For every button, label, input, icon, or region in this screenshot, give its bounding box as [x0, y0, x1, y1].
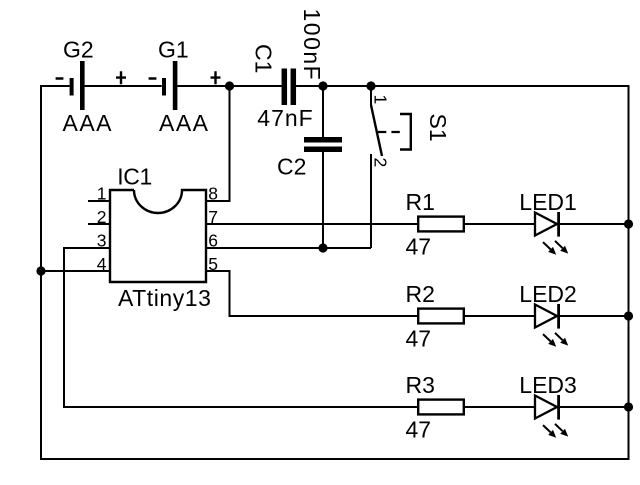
svg-text:AAA: AAA: [159, 110, 210, 136]
svg-text:R1: R1: [406, 189, 435, 215]
svg-text:47: 47: [406, 234, 432, 260]
svg-text:6: 6: [208, 231, 218, 251]
wire pin8 to top rail: [206, 86, 230, 201]
wire pin6 to switch terminal 2: [206, 247, 371, 249]
svg-text:S1: S1: [425, 114, 451, 142]
wire top rail to C2: [322, 86, 324, 137]
wire R1 to LED1: [465, 223, 535, 225]
svg-text:47nF: 47nF: [257, 105, 313, 131]
node battery plus / pin8 junction: [225, 81, 234, 90]
wire LED3 to right rail: [559, 406, 628, 408]
svg-text:G2: G2: [63, 37, 94, 63]
node LED3 / right rail junction: [624, 402, 633, 411]
svg-text:100nF: 100nF: [299, 9, 325, 82]
polarity plus (G1): [211, 71, 221, 84]
svg-text:2: 2: [97, 207, 107, 227]
wire R3 to LED3: [465, 406, 535, 408]
wire pin2 stub: [88, 223, 110, 225]
wire top rail to switch terminal 1: [370, 86, 372, 105]
capacitor C2: [304, 140, 342, 150]
wire pin4 to left rail: [41, 270, 110, 272]
wire pin3 to R3: [64, 248, 417, 407]
svg-text:G1: G1: [158, 37, 189, 63]
wire switch terminal 2: [370, 154, 372, 248]
wire pin7 to R1: [206, 223, 417, 225]
LED LED3: [535, 395, 568, 438]
wire LED2 to right rail: [559, 315, 628, 317]
svg-text:2: 2: [370, 158, 390, 168]
wire R2 to LED2: [465, 315, 535, 317]
node C2 / pin6 junction: [318, 243, 327, 252]
svg-text:C2: C2: [277, 153, 306, 179]
battery G2: [72, 61, 83, 110]
wire G2 plus to G1 minus: [85, 85, 162, 87]
wire C2 to pin6 net: [322, 152, 324, 248]
LED LED2: [535, 304, 568, 347]
resistor R3: [418, 400, 464, 415]
switch S1 actuator (dashed link and button): [378, 114, 411, 150]
svg-text:3: 3: [97, 231, 107, 251]
svg-text:C1: C1: [250, 44, 276, 73]
polarity plus (G2): [116, 71, 126, 84]
IC IC1 ATtiny13 body: [110, 190, 206, 282]
svg-text:7: 7: [208, 207, 218, 227]
wire pin1 stub: [88, 200, 110, 202]
svg-text:1: 1: [370, 95, 390, 105]
resistor R1: [418, 217, 464, 232]
node pin4 / left rail junction: [36, 266, 45, 275]
capacitor C1: [284, 69, 293, 106]
svg-text:LED1: LED1: [519, 189, 577, 215]
polarity minus (G2): [56, 77, 64, 80]
svg-text:LED2: LED2: [519, 281, 577, 307]
wire LED1 to right rail: [559, 223, 628, 225]
polarity minus (G1): [149, 77, 157, 80]
wire outer loop: left rail, bottom rail, right rail, top-right rail: [41, 86, 629, 459]
node switch feed junction: [366, 81, 375, 90]
wire pin5 to R2: [206, 271, 417, 316]
svg-text:4: 4: [97, 254, 107, 274]
svg-text:LED3: LED3: [519, 372, 577, 398]
LED LED1: [535, 212, 568, 255]
svg-text:R3: R3: [406, 372, 435, 398]
resistor R2: [418, 309, 464, 324]
svg-text:ATtiny13: ATtiny13: [118, 285, 211, 311]
svg-text:47: 47: [406, 417, 432, 443]
svg-text:5: 5: [208, 254, 218, 274]
node LED2 / right rail junction: [624, 311, 633, 320]
wire G1 plus to C1: [178, 85, 282, 87]
svg-text:AAA: AAA: [63, 110, 114, 136]
node LED1 / right rail junction: [624, 219, 633, 228]
svg-text:IC1: IC1: [117, 163, 152, 189]
svg-text:R2: R2: [406, 281, 435, 307]
switch S1 arm: [371, 105, 382, 156]
battery G1: [164, 61, 175, 110]
svg-text:47: 47: [406, 326, 432, 352]
node C1-C2 junction: [318, 81, 327, 90]
svg-text:8: 8: [208, 184, 218, 204]
svg-text:1: 1: [97, 184, 107, 204]
